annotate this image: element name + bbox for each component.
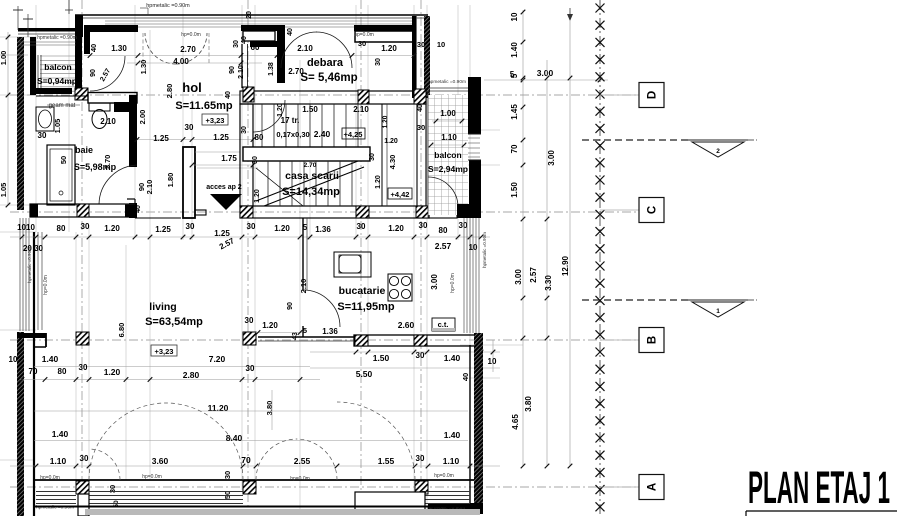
svg-text:3.00: 3.00: [547, 150, 556, 166]
right dim column 2: [546, 60, 548, 466]
balcon bottom corner wall: [457, 204, 481, 218]
svg-text:1.05: 1.05: [53, 119, 62, 134]
sink baie: [36, 107, 54, 131]
svg-text:debara: debara: [307, 57, 344, 69]
grid bubble D: [600, 94, 639, 96]
svg-text:1.40: 1.40: [42, 354, 59, 364]
svg-text:30: 30: [38, 131, 47, 140]
survey cross marks top-left: [17, 6, 19, 30]
svg-text:1.20: 1.20: [104, 367, 121, 377]
svg-text:1.50: 1.50: [302, 105, 318, 114]
kitchen sink: [334, 252, 371, 277]
property fence line: [599, 0, 601, 516]
svg-text:1.40: 1.40: [444, 353, 461, 363]
survey arrow right: [569, 8, 571, 20]
grid bubble C: [600, 209, 639, 211]
title block corner: [746, 510, 897, 512]
dim row y366: [34, 366, 310, 368]
stair top wall: [240, 91, 426, 104]
hol mid dim lines: [137, 139, 253, 141]
svg-text:70: 70: [241, 455, 251, 465]
svg-text:30: 30: [416, 351, 425, 360]
svg-text:30: 30: [186, 222, 195, 231]
door frame dashes: [142, 33, 144, 64]
svg-text:43: 43: [292, 332, 299, 340]
svg-text:3.30: 3.30: [544, 275, 553, 291]
svg-text:2.60: 2.60: [398, 320, 415, 330]
svg-text:hpmetalic =0.90m: hpmetalic =0.90m: [146, 3, 190, 9]
svg-text:1.20: 1.20: [277, 103, 284, 117]
svg-text:2.10: 2.10: [299, 279, 308, 294]
baie door arc: [99, 165, 137, 204]
west inner wall line upper: [30, 37, 36, 95]
far-left dim line: [7, 32, 9, 205]
svg-text:1.10: 1.10: [50, 456, 67, 466]
svg-text:hpmetalic =0.90m: hpmetalic =0.90m: [27, 247, 32, 283]
dim line y237 with ticks: [10, 236, 490, 238]
svg-text:+3,23: +3,23: [155, 347, 174, 356]
svg-text:hp=0.0m: hp=0.0m: [434, 473, 454, 479]
svg-text:hpmetalic =0.90m: hpmetalic =0.90m: [428, 79, 466, 85]
svg-text:hp=0.0m: hp=0.0m: [181, 32, 201, 38]
svg-text:S=63,54mp: S=63,54mp: [145, 316, 203, 328]
svg-text:+3,23: +3,23: [206, 116, 225, 125]
balcon right east wall: [468, 77, 481, 134]
svg-text:acces ap 2: acces ap 2: [206, 184, 242, 191]
debara west wall: [277, 25, 285, 83]
svg-text:1.38: 1.38: [268, 62, 275, 76]
svg-text:30: 30: [252, 156, 259, 164]
grid axis vertical A1: [81, 0, 83, 510]
stair treads upper flight: [261, 104, 263, 147]
stair break diagonals: [256, 161, 358, 201]
svg-text:1.20: 1.20: [388, 224, 404, 233]
svg-text:30: 30: [416, 454, 425, 463]
svg-text:90: 90: [229, 66, 236, 74]
svg-text:2.80: 2.80: [183, 370, 200, 380]
svg-text:bucatarie: bucatarie: [339, 285, 386, 297]
dim row y462: [10, 465, 500, 467]
wall segment between stair and balcon corner: [429, 206, 457, 218]
svg-text:hp=0.0m: hp=0.0m: [290, 476, 310, 482]
svg-text:1.10: 1.10: [441, 133, 457, 142]
svg-text:2.40: 2.40: [314, 129, 331, 139]
balcon bottom wall: [32, 88, 72, 94]
svg-text:1010: 1010: [17, 223, 35, 232]
svg-text:hpmetalic =0.90m: hpmetalic =0.90m: [37, 35, 77, 41]
svg-text:80: 80: [57, 224, 66, 233]
svg-text:30: 30: [419, 221, 428, 230]
svg-text:living: living: [149, 301, 176, 313]
svg-text:3.80: 3.80: [265, 401, 274, 416]
svg-text:1.25: 1.25: [214, 229, 230, 238]
svg-text:10: 10: [437, 40, 445, 49]
svg-text:40: 40: [89, 44, 98, 52]
svg-text:1.20: 1.20: [104, 224, 120, 233]
svg-text:S=11.65mp: S=11.65mp: [175, 100, 232, 112]
svg-text:60: 60: [251, 43, 260, 52]
svg-text:30: 30: [185, 123, 194, 132]
svg-text:1.10: 1.10: [443, 456, 460, 466]
top parapet lines: [75, 14, 428, 16]
section line 1: [582, 299, 690, 301]
grid bubble A: [600, 486, 639, 488]
stair west wall: [240, 104, 253, 206]
svg-text:3.00: 3.00: [430, 274, 439, 290]
svg-text:10: 10: [488, 357, 497, 366]
svg-text:+4,25: +4,25: [344, 130, 363, 139]
wall top-left corner step: [75, 15, 83, 37]
svg-text:30: 30: [358, 39, 366, 48]
svg-text:30: 30: [417, 123, 425, 132]
svg-text:2.57: 2.57: [529, 267, 538, 283]
svg-text:40: 40: [241, 36, 248, 44]
south gray strip: [85, 509, 480, 515]
stair bottom wall: [240, 206, 429, 218]
svg-text:1.75: 1.75: [221, 154, 237, 163]
wc: [89, 103, 110, 111]
svg-text:c.t.: c.t.: [438, 320, 449, 329]
svg-text:1.55: 1.55: [378, 456, 395, 466]
hol-debara divider wall: [241, 44, 243, 88]
svg-text:1.45: 1.45: [510, 104, 519, 120]
middle wall left segment: [135, 217, 181, 219]
left top survey mark: [68, 0, 70, 14]
svg-text:2.70: 2.70: [180, 45, 196, 54]
svg-text:30: 30: [79, 363, 88, 372]
svg-text:30: 30: [247, 222, 256, 231]
svg-text:2.70: 2.70: [304, 162, 317, 169]
baie top wall: [88, 93, 137, 104]
svg-text:80: 80: [255, 133, 264, 142]
c.t. box: [432, 318, 455, 331]
svg-text:balcon: balcon: [44, 62, 71, 72]
west outer wall upper (hatched black): [17, 37, 24, 210]
svg-text:B: B: [647, 336, 659, 344]
svg-text:1.00: 1.00: [0, 51, 8, 66]
svg-text:0,17x0,30: 0,17x0,30: [276, 130, 309, 139]
svg-text:1.80: 1.80: [166, 173, 175, 188]
balcon door arc: [428, 177, 458, 207]
svg-text:5: 5: [510, 73, 519, 78]
svg-text:hp=0.0m: hp=0.0m: [354, 32, 374, 38]
svg-text:1.40: 1.40: [444, 430, 461, 440]
svg-text:30: 30: [241, 126, 248, 134]
svg-text:hp=0.0m: hp=0.0m: [142, 474, 162, 480]
svg-text:30: 30: [233, 40, 240, 48]
svg-text:10: 10: [9, 355, 18, 364]
svg-text:1.40: 1.40: [510, 42, 519, 58]
svg-text:10: 10: [510, 12, 519, 21]
svg-text:2.80: 2.80: [165, 84, 174, 99]
north wall pier x241: [241, 25, 277, 31]
right dim column 1: [522, 10, 524, 466]
bathtub: [47, 145, 75, 205]
balcon rail glazing lines: [18, 41, 76, 43]
svg-text:1: 1: [716, 308, 720, 315]
svg-text:4.00: 4.00: [173, 57, 189, 66]
svg-text:hp=0.0m: hp=0.0m: [450, 273, 456, 293]
bottom-right corner: [428, 503, 483, 514]
svg-text:S=0,94mp: S=0,94mp: [37, 76, 77, 86]
svg-text:30: 30: [80, 454, 89, 463]
svg-text:11.20: 11.20: [208, 403, 229, 413]
svg-text:2.10: 2.10: [100, 117, 116, 126]
svg-text:50: 50: [59, 156, 68, 164]
svg-text:1.20: 1.20: [262, 321, 278, 330]
svg-text:20: 20: [246, 11, 253, 19]
right dim column 3: [569, 20, 571, 466]
north-east corner wall: [412, 16, 417, 98]
svg-text:3.60: 3.60: [152, 456, 169, 466]
svg-text:70: 70: [510, 144, 519, 153]
svg-text:3.00: 3.00: [514, 269, 523, 285]
svg-text:2.10: 2.10: [353, 105, 369, 114]
svg-text:2.00: 2.00: [138, 110, 147, 125]
svg-text:balcon: balcon: [434, 150, 461, 160]
svg-text:2.55: 2.55: [294, 456, 311, 466]
svg-text:7.20: 7.20: [209, 354, 226, 364]
svg-text:2.10: 2.10: [145, 180, 154, 195]
svg-text:1.00: 1.00: [440, 109, 456, 118]
south wall main line: [34, 479, 474, 481]
svg-text:1.25: 1.25: [213, 133, 229, 142]
svg-text:4.65: 4.65: [511, 414, 520, 430]
svg-text:C: C: [647, 206, 659, 214]
svg-text:6.80: 6.80: [117, 323, 126, 338]
svg-text:30: 30: [369, 153, 376, 161]
kitchen door arc: [303, 290, 340, 327]
stair landing bar: [243, 147, 370, 161]
svg-text:1.20: 1.20: [384, 138, 398, 145]
svg-text:1.20: 1.20: [381, 44, 397, 53]
top dim lines hol: [84, 55, 414, 57]
svg-text:1.50: 1.50: [510, 182, 519, 198]
south window sills: [36, 491, 76, 493]
svg-text:90: 90: [287, 302, 294, 310]
svg-text:12.90: 12.90: [561, 255, 570, 276]
svg-text:2: 2: [716, 148, 720, 155]
svg-text:hp=0.0m: hp=0.0m: [43, 275, 49, 295]
svg-text:5: 5: [303, 326, 307, 335]
svg-text:1.20: 1.20: [254, 189, 261, 203]
south outer line: [34, 506, 474, 508]
west outer wall lower: [17, 332, 24, 516]
dim row y372: [20, 379, 320, 381]
debara door arcs: [281, 32, 317, 68]
door arc hol to stairs: [253, 100, 285, 132]
horizontal dim line top right: [484, 79, 608, 81]
svg-text:30: 30: [357, 222, 366, 231]
svg-text:1.30: 1.30: [111, 44, 127, 53]
svg-text:40: 40: [461, 373, 470, 381]
svg-text:1.36: 1.36: [315, 225, 331, 234]
stair mid vertical: [381, 104, 383, 206]
balcon small floor deck lines: [40, 55, 76, 57]
dim extension lines vertical: [35, 5, 37, 232]
svg-text:2.57: 2.57: [435, 241, 452, 251]
north wall segment x354: [354, 25, 414, 31]
east dim vertical stub: [492, 340, 494, 372]
svg-text:1.40: 1.40: [52, 429, 69, 439]
svg-text:1.05: 1.05: [0, 183, 8, 198]
north wall solid segments: [84, 25, 138, 32]
grid axis horizontal D C B A: [10, 94, 638, 96]
svg-text:A: A: [647, 483, 659, 491]
svg-text:1.30: 1.30: [139, 60, 148, 75]
svg-text:hp=0.0m: hp=0.0m: [40, 475, 60, 481]
svg-text:30: 30: [417, 40, 425, 49]
hatched columns living: [76, 332, 89, 345]
svg-text:40: 40: [135, 205, 142, 213]
level box +3,23 hol: [202, 114, 228, 125]
living extension line x126: [125, 245, 127, 480]
svg-text:S=2,94mp: S=2,94mp: [428, 164, 468, 174]
dim extension lines horizontal: [0, 36, 36, 38]
svg-text:80: 80: [58, 367, 67, 376]
hatched column under balcon: [75, 88, 88, 100]
svg-text:3.00: 3.00: [537, 68, 554, 78]
south wall hatched columns: [76, 481, 89, 494]
svg-text:S=11,95mp: S=11,95mp: [337, 301, 394, 313]
east window band: [463, 218, 465, 333]
svg-text:30: 30: [375, 58, 382, 66]
svg-text:70: 70: [29, 367, 38, 376]
svg-text:30: 30: [223, 471, 232, 479]
svg-text:40: 40: [417, 104, 424, 112]
svg-text:40: 40: [287, 28, 294, 36]
svg-text:5.50: 5.50: [356, 369, 373, 379]
svg-text:D: D: [647, 91, 659, 99]
svg-text:90: 90: [90, 69, 97, 77]
svg-text:40: 40: [225, 91, 232, 99]
svg-text:S= 5,46mp: S= 5,46mp: [300, 72, 357, 84]
west window band (living balcony door): [19, 218, 21, 331]
baie east wall: [129, 95, 137, 167]
stair east wall: [417, 104, 426, 206]
grid bubble B: [600, 339, 639, 341]
svg-text:hpmetalic =0.90m: hpmetalic =0.90m: [482, 232, 487, 268]
svg-text:8.40: 8.40: [226, 433, 243, 443]
hol top french door dashed arcs: [145, 33, 176, 64]
section line 2: [582, 139, 690, 141]
svg-text:casa scarii: casa scarii: [285, 170, 339, 182]
svg-text:30: 30: [81, 222, 90, 231]
svg-text:1.50: 1.50: [373, 353, 390, 363]
svg-text:80: 80: [439, 226, 448, 235]
baie bottom wall: [30, 204, 135, 217]
kitchen west wall: [302, 218, 304, 290]
svg-text:baie: baie: [75, 145, 93, 155]
west inner wall line lower: [33, 232, 35, 516]
balcon right top window band: [428, 87, 468, 89]
svg-text:1.25: 1.25: [153, 134, 169, 143]
svg-text:1.36: 1.36: [322, 327, 338, 336]
svg-text:1.25: 1.25: [155, 225, 171, 234]
balcon/hol divider wall: [75, 37, 82, 88]
level box +3,23 living: [151, 345, 177, 356]
middle wall right segment: [240, 204, 429, 218]
svg-text:3.80: 3.80: [524, 396, 533, 412]
svg-text:1.20: 1.20: [375, 175, 382, 189]
balcon door arc into hol: [90, 56, 125, 91]
svg-text:S=14,34mp: S=14,34mp: [282, 186, 340, 198]
svg-text:geam mat: geam mat: [49, 103, 76, 109]
svg-text:30: 30: [245, 316, 254, 325]
svg-text:+4,42: +4,42: [391, 190, 410, 199]
south door arcs dashed: [89, 403, 166, 480]
corridor wall acces: [183, 147, 195, 218]
west inner window tracks: [37, 232, 39, 330]
kitchen stove: [388, 274, 412, 301]
svg-text:50: 50: [223, 491, 232, 499]
svg-text:1.20: 1.20: [382, 115, 389, 128]
svg-text:4.30: 4.30: [388, 155, 397, 170]
kitchen bottom wall: [354, 335, 480, 346]
svg-text:30: 30: [246, 364, 255, 373]
east wall lower solid: [474, 333, 483, 508]
stair treads lower flight: [267, 161, 269, 206]
svg-text:2.70: 2.70: [103, 155, 112, 170]
svg-text:PLAN ETAJ 1: PLAN ETAJ 1: [748, 462, 890, 513]
svg-text:2.10: 2.10: [297, 44, 313, 53]
svg-text:30: 30: [459, 221, 468, 230]
svg-text:hol: hol: [182, 80, 202, 95]
balcon right floor tiles: [428, 95, 468, 215]
svg-text:1.20: 1.20: [274, 224, 290, 233]
